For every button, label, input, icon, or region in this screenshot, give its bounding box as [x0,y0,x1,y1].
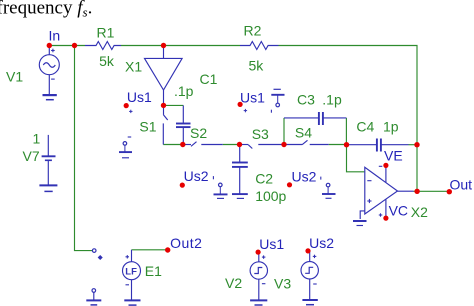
node VC label [389,203,408,219]
control label Us2 of S4 [287,169,317,188]
capacitor C1 [176,105,191,144]
svg-text:V3: V3 [274,276,291,292]
controlled source E1 [123,250,141,300]
svg-text:Out: Out [450,177,473,193]
ground of E1 [124,300,140,305]
label R2 [244,23,262,39]
caption text "frequency fs." [0,0,92,20]
node dot output [414,189,419,194]
ground of V1 [43,95,57,100]
node dot left junction [72,43,77,48]
label S1 [139,119,156,135]
label C1 [200,71,218,87]
node Us1 label of V2 [256,236,285,255]
control ground of S1 [119,137,132,158]
node VE label [384,148,403,164]
voltage source V1 [39,46,59,95]
switch S4 [284,140,329,144]
battery V7 [42,135,56,185]
svg-text:E1: E1 [145,263,162,279]
svg-text:Us1: Us1 [127,89,152,105]
node Us2 label of V3 [305,235,334,254]
svg-text:VC: VC [389,203,408,219]
control label Us2 of S2 [180,168,209,188]
wire: X1 output to C1 top [164,104,184,106]
wire: C4 right to feedback node [409,144,418,146]
wire: C3 right riser [345,118,347,145]
svg-text:.1p: .1p [322,92,342,108]
label 5k of R2 [249,58,265,74]
svg-text:5k: 5k [99,53,115,69]
control label Us1 of S3 [238,90,266,113]
label S4 [295,125,312,141]
svg-text:R2: R2 [244,23,262,39]
svg-text:S3: S3 [252,126,269,142]
wire: node to X2 inverting input [347,145,365,172]
capacitor C2 [232,145,248,194]
wire: output node to Out label [414,190,450,192]
label 1 of V7 [33,130,41,146]
node Out2 label [170,235,202,251]
capacitor C3 [284,112,346,125]
svg-text:C4: C4 [356,119,374,135]
label C3 [297,92,315,108]
label R1 [97,24,115,40]
resistor R2 [240,42,279,50]
wire: left vertical from junction down to E1 sense [75,46,93,251]
svg-text:Us2: Us2 [292,169,317,185]
svg-text:X1: X1 [125,59,142,75]
svg-text:C2: C2 [255,171,273,187]
node dot S3/S4/C3 junction [281,142,286,147]
ground of X2 input [353,221,367,226]
LF glyph inside E1 [125,267,137,278]
wire: S4 right lead to C3/C4 junction [329,144,347,146]
wire: R1 to R2 along top rail [121,45,240,47]
op-amp X2 [365,167,414,214]
svg-text:C3: C3 [297,92,315,108]
label .1p of C1 [174,83,194,99]
svg-text:Us2: Us2 [309,235,334,251]
switch S1 [163,105,167,144]
svg-text:5k: 5k [249,58,265,74]
node In label [49,28,61,44]
control ground of S3 (inverted) [271,89,284,112]
node dot C1/S2 junction [180,142,185,147]
node dot Out [447,189,452,194]
svg-text:1p: 1p [383,119,399,135]
svg-text:C1: C1 [200,71,218,87]
svg-text:X2: X2 [411,204,428,220]
node dot C2/S3 junction [237,142,242,147]
control ground of S4 [321,177,336,199]
pulse source V2 [250,253,267,300]
label V3 [274,276,291,292]
wire: S2 right to C2 junction [223,144,240,146]
control ground of S2 [213,176,227,198]
wire: In node to R1 [49,45,85,47]
ground of V2 [250,300,267,305]
svg-text:Us1: Us1 [259,236,284,252]
node dot Out2 [165,247,170,252]
node dot S4/C4 junction [344,142,349,147]
ground of C2 [232,194,248,198]
label V2 [225,275,242,291]
switch S3 [240,145,285,149]
node dot feedback top [414,142,419,147]
label C4 [356,119,374,135]
svg-text:V7: V7 [23,148,40,164]
E1 sense plus terminal [92,249,102,260]
label C2 [255,171,273,187]
svg-text:100p: 100p [255,188,286,204]
svg-text:1: 1 [33,130,41,146]
switch S2 [183,142,223,147]
node Out label [450,177,473,193]
svg-text:V1: V1 [6,69,23,85]
svg-text:VE: VE [384,148,403,164]
resistor R1 [85,42,121,50]
svg-text:S4: S4 [295,125,312,141]
label S3 [252,126,269,142]
label X1 [125,59,142,75]
wire: C3 left riser [283,118,285,145]
svg-text:frequency fs.: frequency fs. [0,0,92,20]
label S2 [190,125,207,141]
node dot In [47,43,52,48]
svg-text:Out2: Out2 [170,235,202,251]
VE supply pin of X2 [379,163,389,183]
svg-text:In: In [49,28,61,44]
label 1p of C4 [383,119,399,135]
label .1p of C3 [322,92,342,108]
ground of V7 [39,185,57,191]
label 5k of R1 [99,53,115,69]
wire: S1 bottom to C1 bottom junction [163,144,183,146]
VC supply pin of X2 [379,200,389,221]
svg-text:R1: R1 [97,24,115,40]
wire: R2 right to top-right corner and down to feedback node [279,46,418,192]
buffer X1 [145,46,183,106]
svg-text:V2: V2 [225,275,242,291]
label E1 [145,263,162,279]
X2 non-inverting input to ground [360,211,365,219]
pulse source V3 [301,252,318,300]
wire: E1 plus to Out2 label [132,249,168,251]
label V1 [6,69,23,85]
capacitor C4 [347,139,409,152]
ground of V3 [302,300,317,305]
svg-text:Us2: Us2 [184,168,209,184]
control label Us1 of S1 [124,89,152,113]
svg-text:LF: LF [125,267,137,278]
svg-text:S2: S2 [190,125,207,141]
svg-text:Us1: Us1 [240,90,265,106]
svg-text:S1: S1 [139,119,156,135]
node dot X1 input junction [161,43,166,48]
label X2 [411,204,428,220]
node dot X1 output [161,103,166,108]
E1 sense minus terminal with ground [86,289,101,305]
svg-text:.1p: .1p [174,83,194,99]
label V7 [23,148,40,164]
label 100p of C2 [255,188,286,204]
